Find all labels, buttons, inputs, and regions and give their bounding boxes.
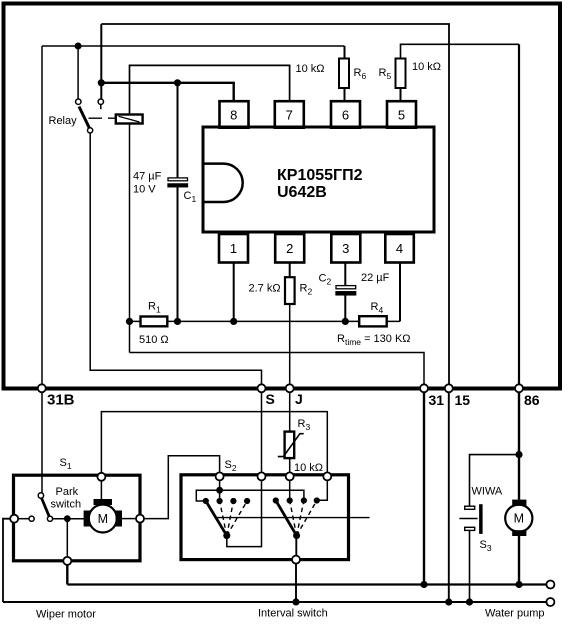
pin 3 box — [331, 234, 360, 263]
capacitor C2 plates — [336, 286, 356, 289]
wire: left terminal to left throw contact — [18, 518, 29, 520]
wire: motor right cap to S1 right terminal — [122, 518, 136, 520]
pin 8 box — [220, 101, 249, 128]
wire: R3 bottom to S2 terminal J — [289, 458, 291, 472]
wire: relay switched contact down x=90, rail y=370.3 to terminal S — [90, 133, 261, 386]
wire: rail y=352.5 to terminal 31 — [130, 353, 425, 387]
pin 6 box — [331, 101, 360, 128]
wire: S2 terminal4 hook to contact R4 — [317, 478, 328, 500]
svg-text:31: 31 — [429, 392, 445, 408]
S1 left terminal — [10, 515, 18, 523]
node: junction on terminal1 lead — [217, 487, 223, 493]
wire: arm contact to motor left cap — [53, 518, 84, 520]
IC notch D-shape — [205, 164, 243, 202]
wire: branch to washer switch S3 — [470, 455, 520, 507]
wire: J terminal lead down to contact R2 — [289, 478, 291, 501]
left selector arm — [206, 501, 227, 536]
svg-text:10 V: 10 V — [133, 184, 156, 196]
wire R6 bottom to pin 6 — [344, 88, 346, 101]
node: junction on y=46 rail above relay contact — [75, 43, 81, 49]
node: junction S3 line on bus2 — [466, 599, 472, 605]
pin 7 box — [275, 101, 304, 128]
S2 terminal 4 — [323, 472, 331, 480]
S2 terminal 1 — [216, 472, 224, 480]
relay switch arm — [79, 107, 89, 128]
wire: S1 right terminal out to S2 first terminal — [144, 456, 220, 519]
wiper motor left brush cap — [84, 511, 90, 527]
water pump motor bottom brush cap — [512, 530, 526, 536]
wire: S1 left terminal out to lower bus — [3, 519, 11, 602]
node: junction C1 top on pin8 rail — [174, 80, 180, 86]
svg-text:8: 8 — [230, 108, 237, 123]
wire: terminal 31 down to bottom bus — [423, 390, 425, 585]
wire: pin3 lead to C2 — [344, 263, 346, 286]
svg-text:6: 6 — [342, 108, 349, 123]
wire: common output rail y=517.6 — [215, 517, 369, 519]
svg-text:switch: switch — [51, 499, 82, 511]
wire: water pump motor bottom to bus — [518, 536, 520, 585]
interval switch box S2 — [181, 475, 349, 560]
terminal 86 — [515, 384, 523, 392]
wire: net 86 vertical x=519 down to terminal 86 — [518, 44, 520, 386]
svg-text:15: 15 — [455, 392, 471, 408]
svg-text:U642B: U642B — [277, 184, 327, 201]
relay contact circle left — [76, 99, 81, 104]
node: junction C1 bottom — [174, 318, 180, 324]
relay actuation dashed link — [89, 117, 116, 119]
wire: net 31B rail y=46 from x=42 to R6 top — [42, 45, 345, 47]
wire: junction down to S1 bottom terminal — [66, 519, 68, 557]
resistor R4 — [359, 316, 387, 326]
right selector dashed throws — [290, 501, 317, 536]
pin 2 box — [275, 234, 304, 263]
wire: x=101 vertical from y=24 rail to relay movable contact — [100, 24, 102, 99]
svg-text:2: 2 — [286, 241, 293, 256]
node: junction inside S1 — [64, 516, 70, 522]
resistor R1 — [141, 317, 168, 327]
svg-text:Interval switch: Interval switch — [258, 608, 328, 620]
terminal 31B — [38, 384, 46, 392]
pin 1 box — [219, 234, 248, 263]
wire: S terminal lead down, across, up to left pivot — [227, 478, 262, 547]
node: junction WIWA branch — [516, 452, 522, 458]
svg-text:M: M — [514, 512, 524, 526]
svg-text:Wiper motor: Wiper motor — [36, 609, 96, 621]
wire: terminal 86 down to water pump motor — [518, 390, 520, 500]
S1 bottom terminal — [63, 557, 71, 565]
right selector pivot dot — [294, 533, 300, 539]
S1 right terminal — [136, 515, 144, 523]
svg-text:10 kΩ: 10 kΩ — [412, 61, 441, 73]
water pump motor top brush cap — [512, 500, 526, 506]
R3 diagonal adjust arrow — [278, 434, 304, 457]
terminal bus1 right end — [546, 581, 554, 589]
park switch left throw contact circle — [29, 516, 34, 521]
S2 terminal S — [258, 472, 266, 480]
contact dots left selector — [203, 498, 208, 503]
op-amp/IC U1 body KP1055GP2 — [203, 127, 434, 232]
wire: S3 bottom to lower bus — [469, 530, 471, 602]
svg-text:31B: 31B — [47, 392, 75, 409]
wire: R2 bottom to terminal J — [289, 304, 291, 386]
svg-text:5: 5 — [398, 108, 405, 123]
svg-text:2.7 kΩ: 2.7 kΩ — [249, 283, 281, 295]
washer switch S3 actuator bar — [479, 504, 483, 534]
wire: R1 rail y=321.4 segments — [130, 320, 401, 322]
svg-text:Park: Park — [56, 486, 79, 498]
PLACEHOLDER-COMPONENTS2 — [3, 390, 547, 605]
park switch arm contact circle — [47, 516, 52, 521]
resistor R3 (variable) body — [285, 432, 295, 459]
washer switch S3 top plate — [465, 506, 475, 509]
resistor R2 — [285, 277, 295, 304]
node: junction 15 line on bus2 — [446, 599, 452, 605]
wiper motor M circle — [89, 505, 117, 533]
washer switch S3 bottom plate — [465, 527, 475, 530]
wire: C1 top lead — [177, 83, 179, 178]
svg-text:S: S — [266, 391, 275, 407]
bus wire 1 (horizontal y=584.5) — [67, 583, 546, 585]
pin 5 box — [387, 101, 416, 128]
wire: pin7 rail y=65.4 from relay coil top — [130, 65, 290, 114]
washer switch S3 pole line — [459, 518, 477, 520]
svg-text:WIWA: WIWA — [472, 486, 503, 498]
wire: C1 bottom lead down to R1 rail — [177, 187, 179, 322]
wire: relay coil bottom x=129.5 down through R1 node to y=352.5 — [129, 123, 131, 352]
relay coil box — [116, 115, 143, 124]
terminal J — [286, 384, 294, 392]
wiper motor box S1 — [14, 475, 141, 561]
wire: terminal 15 down to lower bus — [448, 390, 450, 602]
wire: R6 top stub — [344, 46, 346, 59]
node: junction 31 line on bus1 — [421, 581, 427, 587]
svg-text:510 Ω: 510 Ω — [139, 334, 169, 346]
wire: S2 terminal1 down to junction and contact L2 — [219, 478, 221, 501]
svg-text:Relay: Relay — [49, 115, 78, 127]
S2 terminal J — [286, 472, 294, 480]
svg-text:47 µF: 47 µF — [133, 171, 162, 183]
relay contact circle right with tail — [98, 99, 103, 104]
svg-text:86: 86 — [524, 392, 540, 408]
node: junction pin1 — [231, 318, 237, 324]
wire: drop x=78 to relay fixed contact — [77, 46, 79, 99]
wire: pin8 rail y=82.8 — [101, 83, 233, 102]
wire R5 bottom to pin 5 — [400, 88, 402, 101]
right selector arm — [276, 501, 297, 536]
border frame of module (thick box, bottom edge is terminal bar) — [4, 4, 561, 389]
left selector dashed throws — [220, 501, 248, 536]
wire: C2 bottom to rail — [344, 295, 346, 321]
svg-text:10 kΩ: 10 kΩ — [294, 462, 323, 474]
relay coil diagonal — [119, 116, 140, 122]
wire: S1 bottom terminal down to bus1 — [66, 565, 68, 585]
svg-text:Water pump: Water pump — [485, 608, 545, 620]
wire: 31B below bar down to park switch contact — [41, 390, 43, 493]
svg-text:1: 1 — [230, 241, 237, 256]
wire: S1 top terminal to motor top cap — [100, 480, 102, 499]
wire: pin1 lead down to rail — [233, 263, 235, 322]
terminal S — [258, 384, 266, 392]
svg-text:7: 7 — [286, 108, 293, 123]
S2 bottom terminal — [292, 556, 300, 564]
pin 4 box — [385, 234, 414, 263]
wire: S below bar to S2 terminal — [261, 390, 263, 473]
svg-text:22 µF: 22 µF — [361, 272, 390, 284]
svg-text:10 kΩ: 10 kΩ — [296, 63, 325, 75]
S1 top terminal — [97, 473, 105, 481]
wire: R5 top to rail y=44.3 over to x=519 — [401, 44, 520, 58]
node: junction S2 bottom line on bus2 — [293, 599, 299, 605]
wiper motor right brush cap — [116, 511, 122, 527]
water pump motor M circle — [505, 505, 532, 532]
terminal 31 — [420, 384, 428, 392]
svg-text:J: J — [295, 391, 303, 407]
node: junction C2 bottom — [342, 318, 348, 324]
wiper motor top brush cap — [94, 499, 113, 505]
svg-text:3: 3 — [342, 241, 349, 256]
wire: J below bar to R3 top — [289, 390, 291, 432]
bus wire 2 (horizontal y=602) — [3, 601, 547, 603]
capacitor C1 plates — [168, 178, 188, 181]
PLACEHOLDER-BOTTOM2 — [36, 61, 545, 621]
wire: 31B vertical x=42 down to terminal 31B — [41, 46, 43, 386]
wire: pin4 lead down to R4 right — [399, 263, 401, 322]
resistor R5 — [396, 59, 406, 89]
wire: rail y=490.2 with drops to contacts L1 and R3 — [196, 490, 304, 501]
resistor R6 — [339, 59, 349, 89]
wire: rail y=411.6 from S1 top to S2 4th terminal — [101, 412, 327, 476]
svg-text:4: 4 — [396, 241, 403, 256]
wire: S2 bottom terminal to bus2 — [295, 564, 297, 603]
wire: pin2 lead to R2 — [289, 263, 291, 278]
wire: net 15 top rail y=24 and drop at x=449 to terminal 15 — [101, 24, 449, 386]
terminal 15 — [445, 384, 453, 392]
node: junction x=101 y=82.8 — [98, 80, 104, 86]
left selector pivot dot — [224, 533, 230, 539]
park switch arm — [42, 498, 50, 516]
svg-text:M: M — [98, 512, 108, 526]
wire: right pivot down to S2 bottom terminal — [295, 536, 297, 556]
park switch upper contact circle — [38, 493, 43, 498]
node: junction pump line on bus1 — [516, 581, 522, 587]
relay arm bottom contact circle — [88, 128, 93, 133]
node: junction R1 left — [126, 318, 132, 324]
contact dots right selector — [273, 498, 278, 503]
terminal bus2 right end — [546, 598, 554, 606]
svg-text:КР1055ГП2: КР1055ГП2 — [277, 167, 363, 184]
